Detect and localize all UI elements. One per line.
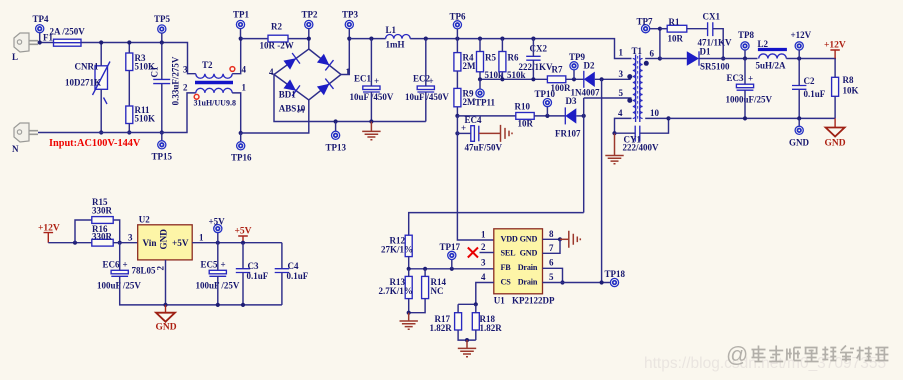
wire 5V ground rail <box>166 304 282 306</box>
test point TP6 <box>450 12 467 29</box>
svg-text:2A /250V: 2A /250V <box>50 27 86 37</box>
wire R12 bottom <box>408 257 410 269</box>
wire TP5 stub <box>161 33 163 42</box>
svg-text:U2: U2 <box>139 215 150 225</box>
wire EC1 <box>370 39 372 86</box>
wire primary ground rail <box>336 121 426 123</box>
svg-text:330R: 330R <box>92 231 113 241</box>
wire EC2 <box>425 39 427 86</box>
capacitor EC3 <box>726 73 773 105</box>
svg-text:GND: GND <box>520 249 538 258</box>
test point TP2 <box>302 10 319 29</box>
capacitor EC1 <box>350 74 394 103</box>
wire C4 <box>281 243 283 269</box>
resistor R3 <box>126 53 155 72</box>
svg-text:Drain: Drain <box>518 263 538 272</box>
connector N <box>12 123 38 154</box>
svg-text:8: 8 <box>549 229 554 239</box>
wire pin10 <box>645 117 668 119</box>
svg-text:31uH/UU9.8: 31uH/UU9.8 <box>194 99 236 108</box>
junction TP13 <box>334 119 338 123</box>
junction CNR1 bottom <box>99 130 103 134</box>
test point TP5 <box>154 14 171 33</box>
svg-text:3: 3 <box>183 65 188 75</box>
resistor R13 <box>379 276 413 298</box>
wire R8 <box>834 59 836 78</box>
junction C1 bottom <box>160 130 164 134</box>
test point GND <box>798 118 800 126</box>
svg-text:GND: GND <box>156 322 177 332</box>
svg-text:0.1uF: 0.1uF <box>804 89 826 99</box>
svg-text:1: 1 <box>242 83 247 93</box>
wire L line <box>38 42 54 44</box>
wire bridge right to DC+ <box>341 39 349 75</box>
svg-text:BD1: BD1 <box>279 90 297 100</box>
svg-text:2: 2 <box>183 83 188 93</box>
wire U2 out <box>192 242 282 244</box>
wire pin5 <box>584 97 632 99</box>
svg-text:10R: 10R <box>518 119 534 129</box>
wire DC+ rail mid <box>410 39 631 59</box>
svg-text:Vin: Vin <box>143 238 157 248</box>
svg-text:7: 7 <box>549 243 554 253</box>
junction EC2 top <box>424 37 428 41</box>
junction pin10 <box>666 116 670 120</box>
junction TP1 <box>239 37 243 41</box>
svg-text:L1: L1 <box>386 25 397 35</box>
wire +12V to R16 <box>48 242 92 244</box>
svg-text:3: 3 <box>481 258 486 268</box>
test point TP7 <box>637 17 654 33</box>
wire R2 to bridge top <box>288 38 309 40</box>
test point TP4 <box>33 14 50 33</box>
transformer T1 secondary winding <box>640 59 643 119</box>
wire TP1 stub <box>240 29 242 39</box>
test point TP18 <box>605 269 626 286</box>
junction R17R18 gnd <box>465 338 469 342</box>
svg-text:TP17: TP17 <box>440 242 461 252</box>
svg-text:+: + <box>221 260 226 270</box>
ground primary CY1 <box>605 156 623 164</box>
resistor R17 <box>430 313 462 333</box>
svg-text:N: N <box>12 144 19 154</box>
svg-text:1.82R: 1.82R <box>480 323 503 333</box>
svg-text:6: 6 <box>650 49 655 59</box>
resistor R9 <box>454 88 476 107</box>
wire L2 to +12V <box>786 58 836 60</box>
capacitor C1 <box>150 56 181 105</box>
junction TP8 <box>743 56 747 60</box>
junction TP10 <box>545 114 549 118</box>
svg-text:10K: 10K <box>843 86 859 96</box>
junction R3 top <box>127 40 131 44</box>
resistor R14 <box>422 276 447 298</box>
bridge diode upper-left <box>283 53 300 70</box>
svg-text:3: 3 <box>296 108 306 113</box>
svg-text:510K: 510K <box>135 114 156 124</box>
svg-text:2: 2 <box>481 242 486 252</box>
svg-text:+: + <box>374 76 379 86</box>
wire U2 gnd stub <box>165 260 167 305</box>
wire aux to R12 <box>409 213 584 236</box>
wire mid clamp rail <box>480 78 547 80</box>
T2 labels <box>183 60 247 93</box>
capacitor C3 <box>236 261 269 281</box>
svg-text:TP4: TP4 <box>33 14 50 24</box>
wire R4-R9 <box>456 71 458 88</box>
junction CX2 top <box>531 37 535 41</box>
fuse F1 <box>43 27 85 47</box>
svg-text:TP1: TP1 <box>233 10 250 20</box>
svg-text:78L05: 78L05 <box>132 266 157 276</box>
svg-text:TP7: TP7 <box>637 17 654 27</box>
inductor L2 <box>756 39 787 71</box>
svg-text:222/400V: 222/400V <box>623 143 660 153</box>
svg-text:+5V: +5V <box>235 226 252 236</box>
wire R3 <box>128 43 130 54</box>
test point TP17 <box>451 260 453 269</box>
svg-text:1.82R: 1.82R <box>430 323 453 333</box>
diode D3 <box>555 96 581 139</box>
wire pin6 <box>645 58 660 60</box>
resistor R7 <box>547 65 571 94</box>
wire EC4 left <box>457 132 470 134</box>
ground rotated pin8 <box>560 238 569 240</box>
svg-text:D1: D1 <box>700 47 711 57</box>
wire R5 bottom <box>479 72 481 80</box>
svg-text:6: 6 <box>549 258 554 268</box>
svg-text:EC4: EC4 <box>465 115 483 125</box>
T1 polarity dot pin3 <box>627 74 632 79</box>
T1 polarity dot pin5 <box>627 98 632 103</box>
junction U2 gnd <box>163 303 167 307</box>
wire TP3 stub <box>348 29 350 39</box>
junction C3 bottom <box>241 303 245 307</box>
wire CS <box>476 283 494 305</box>
power +12V input <box>38 224 60 243</box>
test point TP15 <box>161 133 163 141</box>
bridge BD1 outline <box>274 49 341 100</box>
svg-text:CNR1: CNR1 <box>75 62 99 72</box>
wire EC4 right to ground <box>479 132 501 134</box>
junction CNR1 top <box>99 40 103 44</box>
svg-text:U1: U1 <box>494 296 505 306</box>
svg-text:330R: 330R <box>92 206 113 216</box>
junction TP9 <box>572 77 576 81</box>
bridge diode upper-right <box>316 53 333 70</box>
junction EC1 top <box>369 37 373 41</box>
bridge diode lower-right <box>316 79 333 96</box>
bridge diode lower-left <box>283 79 300 96</box>
wire R11 bottom <box>128 124 130 133</box>
resistor R8 <box>832 75 859 96</box>
junction R16 right <box>118 241 122 245</box>
wire R18 bottom <box>475 330 477 340</box>
ground primary below EC1 <box>370 122 372 132</box>
svg-text:VDD: VDD <box>501 234 518 243</box>
junction drain node <box>600 77 604 81</box>
svg-text:TP3: TP3 <box>342 10 359 20</box>
ground GND red triangle <box>825 118 846 148</box>
resistor R6 <box>499 52 526 81</box>
capacitor EC2 <box>405 74 449 103</box>
wire pin4 <box>615 118 632 133</box>
junction R12-R13 <box>407 267 411 271</box>
junction CY1 left <box>612 131 616 135</box>
svg-text:3: 3 <box>128 233 133 243</box>
resistor R18 <box>472 313 502 333</box>
test point TP3 <box>342 10 359 29</box>
junction CX2 bottom <box>531 77 535 81</box>
varistor CNR1 <box>65 62 110 105</box>
junction EC1 bottom <box>369 119 373 123</box>
ground below R13 <box>408 313 410 321</box>
junction TP2 <box>307 37 311 41</box>
svg-text:47uF/50V: 47uF/50V <box>465 143 503 153</box>
svg-text:TP11: TP11 <box>475 98 496 108</box>
wire TP8 stub <box>744 50 746 59</box>
svg-text:+: + <box>748 74 753 84</box>
capacitor EC4 <box>461 115 503 153</box>
power +12V red <box>824 40 846 58</box>
wire output bottom rail <box>669 117 836 119</box>
wire R13 bottom <box>408 299 410 313</box>
power +5V red <box>235 226 252 242</box>
wire C3 <box>242 243 244 269</box>
svg-text:GND: GND <box>159 229 169 250</box>
resistor R15 <box>92 197 113 223</box>
wire EC5 <box>217 243 219 271</box>
wire T2 upper right <box>232 39 241 74</box>
svg-text:5uH/2A: 5uH/2A <box>756 61 787 71</box>
junction R14 top <box>423 267 427 271</box>
resistor R10 <box>515 102 535 129</box>
svg-text:CX1: CX1 <box>703 12 721 22</box>
wire L line to T2 <box>81 43 196 74</box>
svg-text:4: 4 <box>481 272 486 282</box>
junction +5V tp <box>216 241 220 245</box>
wire bridge left to gnd rail <box>274 75 336 122</box>
svg-text:2: 2 <box>156 266 166 271</box>
wire TP7 stub <box>650 28 660 30</box>
wire aux vertical <box>583 98 585 213</box>
svg-text:2M: 2M <box>463 61 477 71</box>
regulator U2 box <box>128 215 204 276</box>
svg-text:1mH: 1mH <box>386 40 405 50</box>
wire N line <box>38 93 196 133</box>
junction EC3 bottom <box>743 116 747 120</box>
svg-text:10D271K: 10D271K <box>65 78 101 88</box>
transformer T1 primary winding <box>633 59 636 119</box>
svg-text:+12V: +12V <box>791 30 812 40</box>
resistor R2 <box>260 22 294 51</box>
wire D2 to pin3 <box>595 77 630 79</box>
capacitor C2 <box>792 76 826 99</box>
junction TP3 <box>347 37 351 41</box>
wire CY1 right <box>640 118 669 133</box>
wire R17 bottom <box>458 330 476 340</box>
svg-text:C3: C3 <box>248 261 259 271</box>
test point TP16 <box>240 133 242 142</box>
svg-text:T1: T1 <box>632 46 643 56</box>
svg-text:TP2: TP2 <box>302 10 319 20</box>
svg-text:D2: D2 <box>584 61 595 71</box>
svg-text:0.1uF: 0.1uF <box>247 271 269 281</box>
svg-text:L2: L2 <box>758 39 769 49</box>
wire R7 to D2 <box>566 78 584 80</box>
test point TP1 <box>233 10 250 29</box>
junction pin6-pin5 <box>560 280 564 284</box>
svg-text:1: 1 <box>619 48 624 58</box>
svg-text:KP2122DP: KP2122DP <box>512 296 555 306</box>
capacitor EC5 <box>196 259 240 290</box>
capacitor C4 <box>275 261 309 281</box>
junction 12V <box>797 56 801 60</box>
U1 pin numbers <box>481 229 554 282</box>
wire SEL stub <box>480 252 494 254</box>
junction R5 top <box>478 37 482 41</box>
svg-text:GND: GND <box>789 137 810 147</box>
svg-text:FR107: FR107 <box>555 129 581 139</box>
svg-text:R2: R2 <box>271 22 282 32</box>
wire R10 row <box>457 115 515 117</box>
svg-text:1000uF/25V: 1000uF/25V <box>726 95 773 105</box>
svg-text:CX2: CX2 <box>530 43 548 53</box>
wire pin4 ground stem <box>614 133 616 155</box>
svg-text:SEL: SEL <box>501 249 517 258</box>
junction R11 bottom <box>127 130 131 134</box>
svg-text:4: 4 <box>618 108 623 118</box>
junction pin6 <box>658 56 662 60</box>
wire CX1 down to D1 out <box>713 29 723 59</box>
wire C1 bottom <box>161 84 163 133</box>
test point +12V <box>791 30 812 50</box>
wire drain vertical <box>601 79 603 282</box>
bridge labels <box>269 67 351 114</box>
wire pin6 <box>543 268 563 282</box>
test point +5V <box>217 233 219 243</box>
svg-text:TP8: TP8 <box>738 30 755 40</box>
resistor R12 <box>381 235 413 256</box>
T1 polarity dot pin6 <box>644 61 649 66</box>
svg-text:R5: R5 <box>485 53 496 63</box>
svg-text:+12V: +12V <box>38 224 60 234</box>
wire R15 loop <box>75 220 92 243</box>
junction R4 top <box>455 37 459 41</box>
wire D1 to output <box>699 58 758 60</box>
wire EC3 <box>744 59 746 85</box>
svg-text:2M: 2M <box>463 97 477 107</box>
svg-text:4: 4 <box>269 67 274 77</box>
svg-text:FB: FB <box>501 263 512 272</box>
junction TP5 <box>160 40 164 44</box>
diode D2 <box>571 61 600 98</box>
svg-text:R7: R7 <box>552 65 563 75</box>
svg-text:TP15: TP15 <box>152 152 173 162</box>
junction D3 aux <box>582 114 586 118</box>
capacitor CX2 <box>519 43 554 72</box>
test point TP9 <box>573 70 575 79</box>
capacitor EC6 <box>97 259 141 290</box>
svg-text:EC3: EC3 <box>727 73 745 83</box>
svg-text:EC1: EC1 <box>354 74 372 84</box>
svg-text:EC5: EC5 <box>201 259 219 269</box>
wire C1 top <box>161 43 163 80</box>
svg-text:T2: T2 <box>202 60 213 70</box>
inductor L1 <box>386 25 411 50</box>
diode D1 <box>687 47 730 72</box>
svg-text:TP6: TP6 <box>450 12 467 22</box>
wire TP1 to R2 <box>241 38 268 40</box>
wire R6 bottom <box>501 72 503 80</box>
junction GND stub <box>797 116 801 120</box>
ground rotated EC4 <box>501 125 513 142</box>
T1 pin labels <box>618 48 660 119</box>
svg-text:10R: 10R <box>668 34 684 44</box>
svg-text:R6: R6 <box>508 53 519 63</box>
chip U1 box <box>494 229 555 306</box>
connector L <box>12 33 38 62</box>
wire CNR1 <box>100 43 102 66</box>
junction R9-R10 <box>455 114 459 118</box>
svg-text:27K/1%: 27K/1% <box>381 245 413 255</box>
svg-text:TP18: TP18 <box>605 269 626 279</box>
junction R6 top <box>500 37 504 41</box>
svg-text:0.33uF/275V: 0.33uF/275V <box>171 56 181 105</box>
svg-text:5: 5 <box>619 88 624 98</box>
wire +12V stub <box>798 50 800 59</box>
svg-text:2.7K/1%: 2.7K/1% <box>379 286 413 296</box>
T2 polarity dot lower <box>194 94 199 99</box>
svg-text:D3: D3 <box>566 96 577 106</box>
wire D3 to junction <box>576 115 583 117</box>
svg-text:3: 3 <box>619 69 624 79</box>
svg-text:+: + <box>461 123 466 133</box>
wire R14 bottom <box>409 299 425 313</box>
junction R15 left <box>73 241 77 245</box>
svg-text:NC: NC <box>431 286 444 296</box>
svg-text:R8: R8 <box>843 75 854 85</box>
wire R9 bottom <box>456 107 458 116</box>
svg-text:+12V: +12V <box>824 40 846 50</box>
junction R13 gnd <box>407 311 411 315</box>
svg-text:10R -2W: 10R -2W <box>260 41 294 51</box>
wire TP4 stub <box>39 33 41 43</box>
resistor R16 <box>92 224 113 246</box>
svg-text:C4: C4 <box>288 261 299 271</box>
junction snubber <box>658 27 662 31</box>
wire EC6 <box>119 243 121 271</box>
resistor R1 <box>667 17 687 44</box>
svg-text:+5V: +5V <box>209 216 226 226</box>
svg-text:GND: GND <box>825 138 846 148</box>
junction EC5 bottom <box>216 303 220 307</box>
wire pin5 drain <box>543 282 611 284</box>
svg-text:L: L <box>12 52 18 62</box>
wire R10 to D3 <box>534 115 565 117</box>
inductor T2 winding lower <box>196 88 232 93</box>
svg-text:R10: R10 <box>515 102 531 112</box>
wire N to bridge <box>241 100 309 133</box>
wire CY1 left <box>615 132 636 134</box>
resistor R11 <box>126 105 155 124</box>
svg-text:@: @ <box>726 342 748 367</box>
svg-text:4: 4 <box>242 65 247 75</box>
wire C2 <box>798 59 800 86</box>
T2 polarity dot upper <box>230 67 235 72</box>
junction T2 pin1 bottom <box>239 131 243 135</box>
test point TP11 <box>479 79 481 89</box>
